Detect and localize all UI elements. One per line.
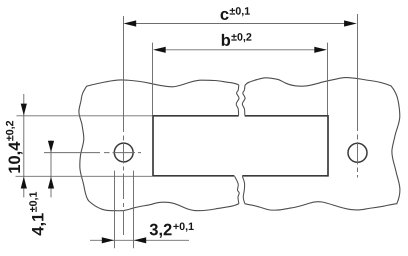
extension line hole diameter left xyxy=(114,171,116,249)
extension line hole diameter right xyxy=(133,171,135,249)
dimension line b xyxy=(164,49,316,51)
arrow 3,2 right xyxy=(134,237,146,243)
cutout rectangle left edge xyxy=(152,115,154,177)
hole right circle xyxy=(348,143,367,162)
arrow b left xyxy=(153,47,166,53)
label b±0,2 xyxy=(222,33,252,46)
plate outline left portion (broken edges) xyxy=(79,80,239,211)
arrow 10,4 bottom xyxy=(21,177,27,189)
dimension line 4,1 vertical xyxy=(50,140,52,197)
label 4,1±0,1 (rotated) xyxy=(29,192,46,236)
label c±0,1 xyxy=(221,7,250,20)
dimension line 10,4 vertical xyxy=(23,94,25,197)
arrow 10,4 top xyxy=(21,104,27,116)
break squiggle upper pair xyxy=(236,85,239,116)
arrow c right xyxy=(344,20,357,26)
cutout rectangle (top edge with break gap) xyxy=(153,115,328,117)
arrow 3,2 left xyxy=(102,237,114,243)
dimension line c xyxy=(135,23,345,25)
extension line b left (rect top-left corner up) xyxy=(152,43,154,115)
break squiggle lower pair xyxy=(235,176,240,203)
extension line b right (rect top-right corner up) xyxy=(327,43,329,115)
label 3,2+0,1 xyxy=(150,223,194,238)
extension line A (rect top edge extended left) xyxy=(16,115,152,117)
centerline horizontal through left hole xyxy=(44,152,141,154)
hole left circle xyxy=(114,143,133,162)
arrow b right xyxy=(314,47,327,53)
plate outline right portion (broken edges) xyxy=(245,78,400,211)
centerline vertical through left hole xyxy=(123,16,125,235)
arrow 4,1 top xyxy=(48,141,54,152)
cutout rectangle right edge xyxy=(327,115,329,177)
arrow 4,1 bottom xyxy=(48,177,54,189)
label 10,4±0,2 (rotated) xyxy=(6,121,23,173)
dimension line 3,2 xyxy=(90,239,189,241)
extension line C (rect bottom edge extended left) xyxy=(16,175,153,177)
centerline vertical through right hole xyxy=(357,14,359,178)
cutout rectangle (bottom edge with break gap) xyxy=(153,175,328,177)
arrow c left xyxy=(124,20,137,26)
